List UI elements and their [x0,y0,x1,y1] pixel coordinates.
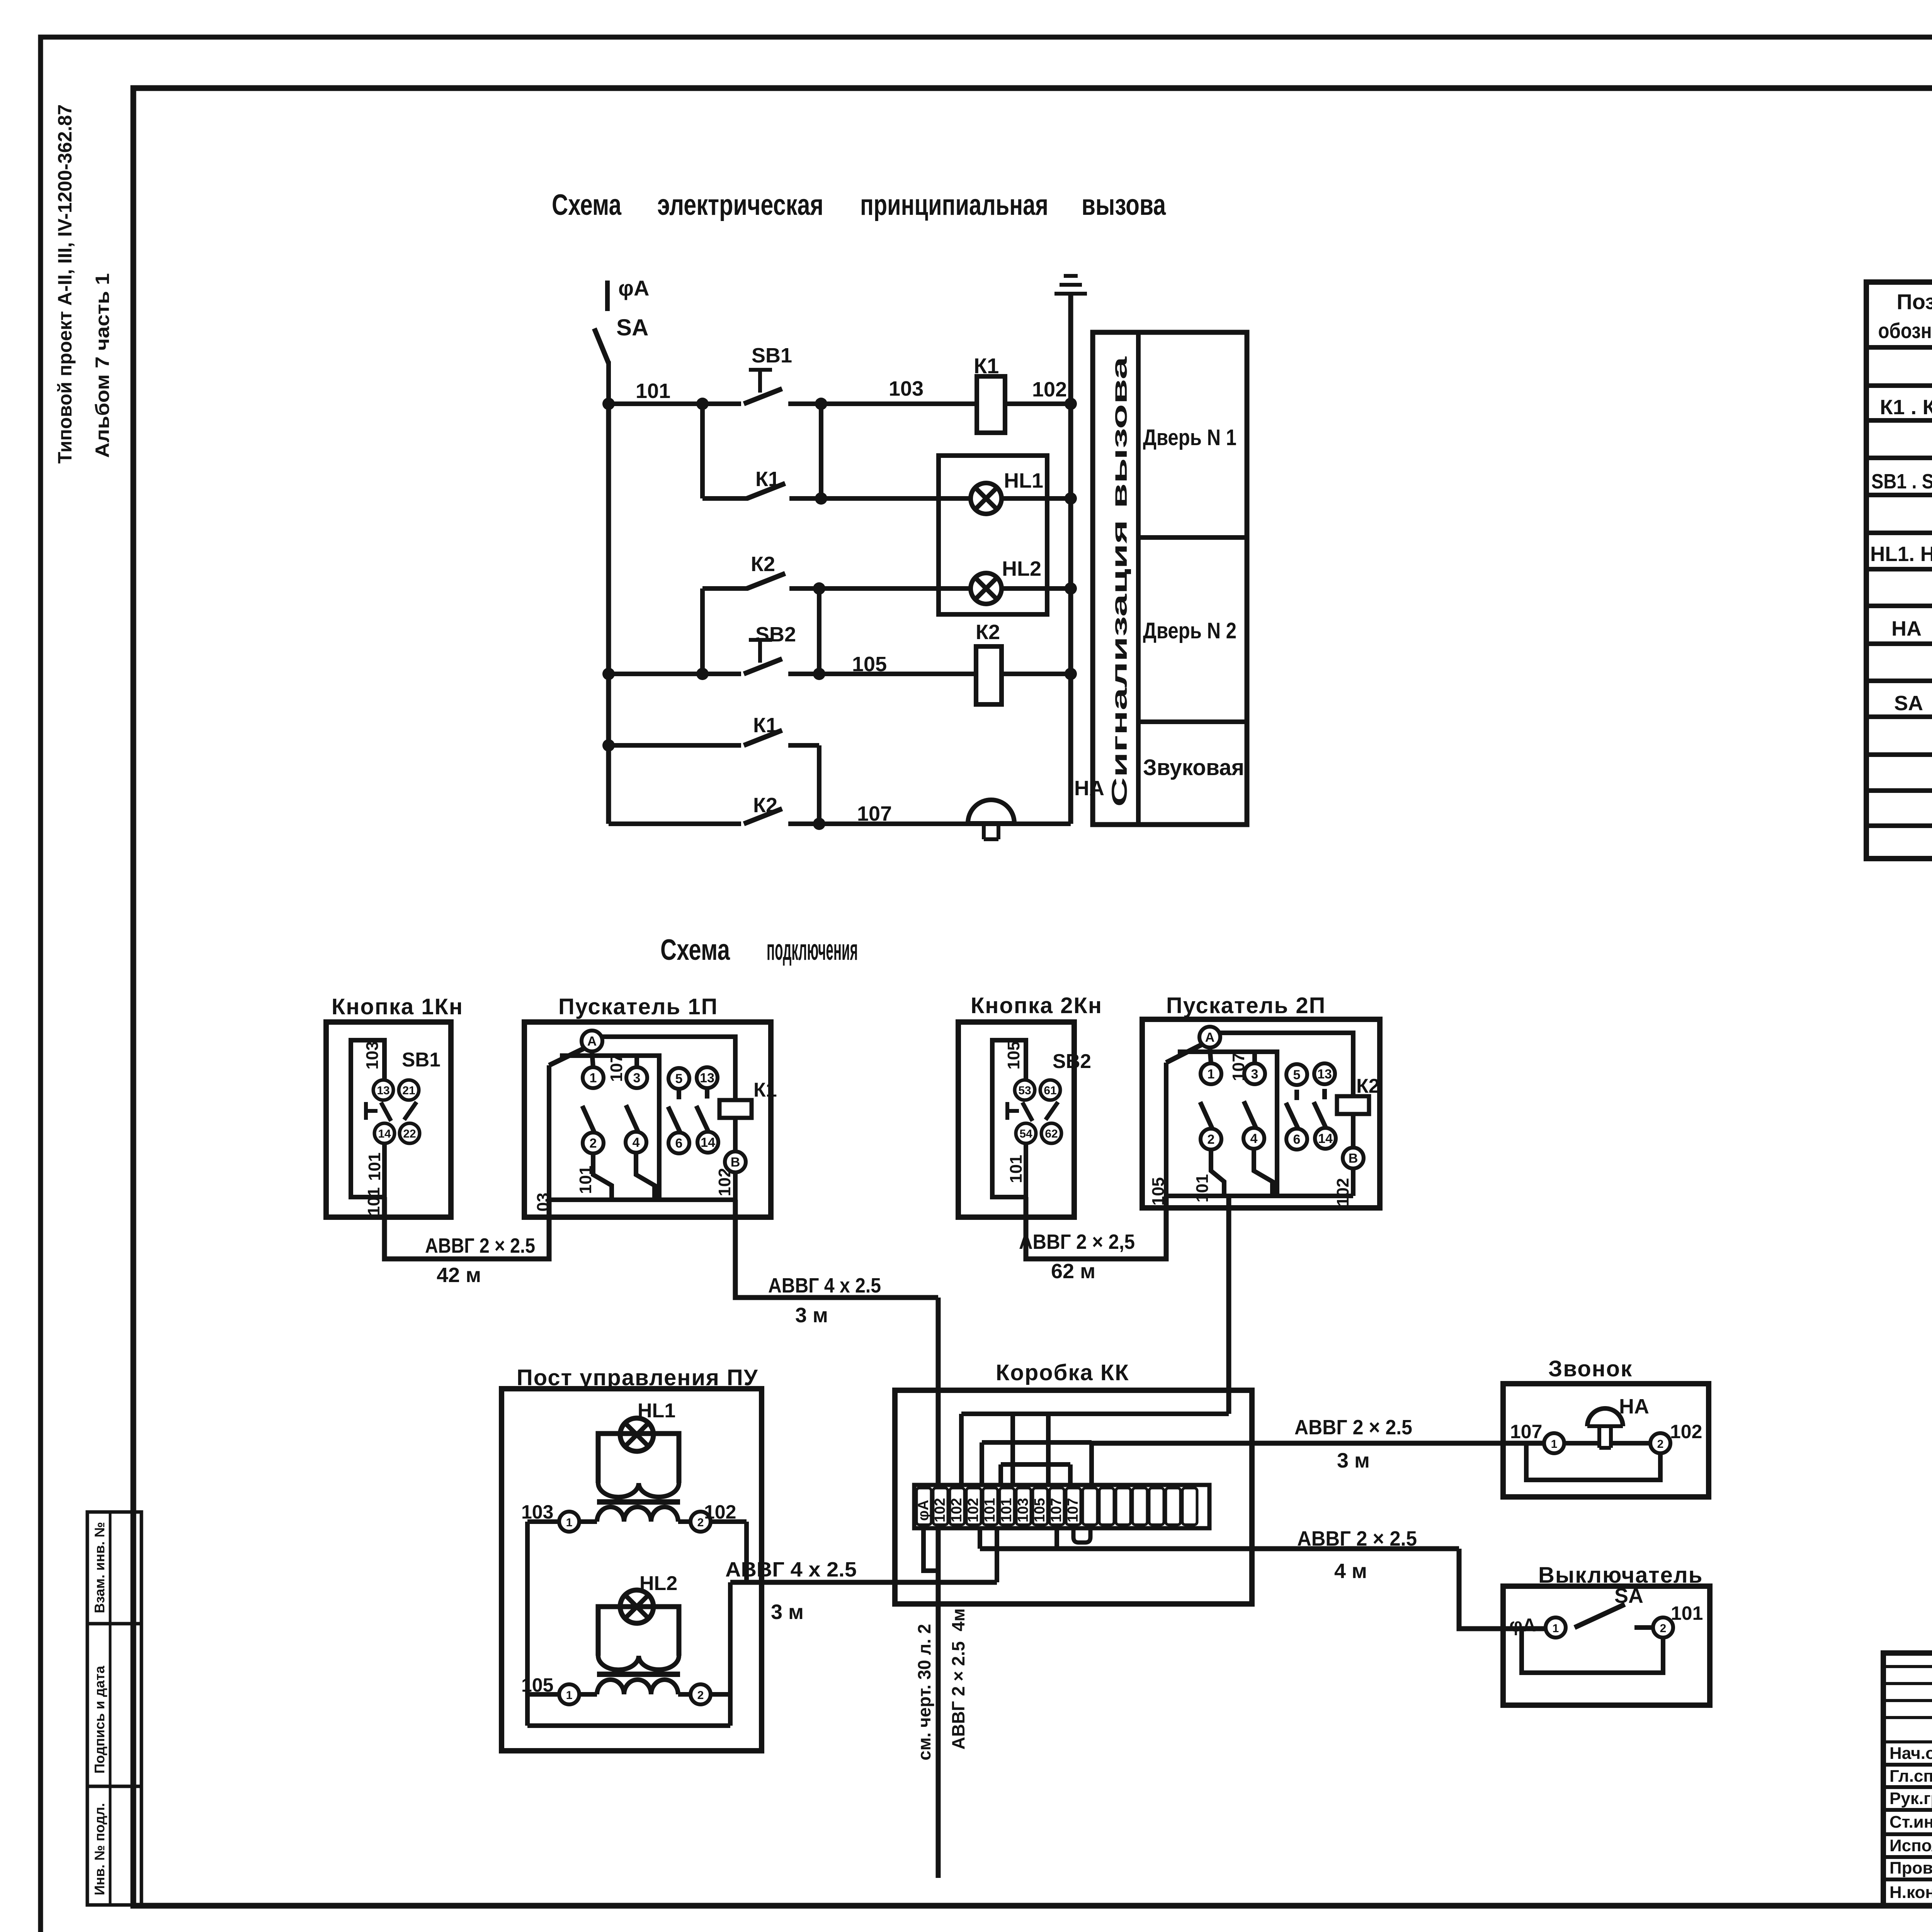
svg-text:103: 103 [1015,1498,1031,1522]
svg-text:105: 105 [1004,1041,1023,1070]
svg-text:2: 2 [1660,1622,1667,1635]
svg-text:101: 101 [364,1187,383,1216]
svg-text:НL2: НL2 [639,1572,677,1595]
svg-text:6: 6 [675,1136,683,1151]
svg-text:НL1. НL2: НL1. НL2 [1870,543,1932,566]
svg-text:1: 1 [566,1516,573,1529]
svg-text:101: 101 [576,1166,595,1194]
svg-text:Рук.гр: Рук.гр [1889,1789,1932,1808]
svg-text:φА: φА [618,276,650,300]
svg-text:2: 2 [697,1689,704,1702]
svg-text:Подпись и дата: Подпись и дата [92,1665,107,1774]
svg-text:2: 2 [590,1136,597,1151]
svg-text:Схема: Схема [552,189,622,221]
svg-text:обознач.: обознач. [1878,318,1932,343]
svg-text:101: 101 [982,1498,998,1522]
svg-text:Кнопка 2Кн: Кнопка 2Кн [971,993,1102,1018]
svg-text:НА: НА [1074,777,1104,800]
svg-text:Пост управления ПУ: Пост управления ПУ [517,1365,759,1390]
svg-text:К1: К1 [755,468,780,491]
svg-text:101: 101 [998,1498,1015,1522]
svg-text:105: 105 [852,653,887,676]
svg-text:54: 54 [1019,1128,1032,1140]
svg-text:К1: К1 [753,714,777,737]
svg-text:Инв. № подл.: Инв. № подл. [92,1803,107,1895]
svg-text:101: 101 [1671,1602,1703,1624]
svg-text:3 м: 3 м [1337,1449,1370,1472]
svg-text:HL2: HL2 [1002,557,1041,580]
svg-text:Альбом 7 часть 1: Альбом 7 часть 1 [92,273,113,458]
svg-text:14: 14 [378,1128,391,1140]
svg-text:АВВГ 2 × 2,5: АВВГ 2 × 2,5 [1019,1230,1135,1253]
svg-text:Нач.отд.: Нач.отд. [1889,1744,1932,1763]
svg-text:102: 102 [965,1498,981,1522]
svg-text:102: 102 [704,1501,736,1523]
svg-text:НА: НА [1891,617,1922,640]
svg-text:φА: φА [1509,1615,1536,1636]
svg-text:13: 13 [377,1084,389,1097]
svg-text:62: 62 [1045,1128,1058,1140]
svg-text:Пускатель 1П: Пускатель 1П [558,994,718,1019]
svg-text:SA: SA [1614,1584,1643,1607]
svg-text:107: 107 [607,1054,626,1082]
svg-text:SB2: SB2 [1053,1050,1091,1073]
svg-text:3 м: 3 м [795,1304,828,1327]
svg-text:3: 3 [633,1071,641,1085]
svg-text:102: 102 [1032,378,1067,401]
svg-text:1: 1 [1207,1067,1215,1082]
svg-text:Схема: Схема [660,934,730,966]
svg-text:101: 101 [365,1153,384,1181]
svg-text:К2: К2 [753,794,777,817]
svg-text:2: 2 [697,1516,704,1529]
svg-text:5: 5 [675,1071,683,1086]
svg-text:4 м: 4 м [1334,1560,1367,1583]
svg-text:К1: К1 [974,354,999,378]
svg-text:107: 107 [1229,1053,1248,1081]
svg-text:62 м: 62 м [1051,1260,1095,1283]
svg-text:Поз.: Поз. [1896,289,1932,314]
svg-text:см. черт. 30 л. 2: см. черт. 30 л. 2 [914,1624,934,1760]
svg-text:Н.контр.: Н.контр. [1889,1883,1932,1902]
svg-text:Типовой проект А-II, III, IV-1: Типовой проект А-II, III, IV-1200-362.87 [54,104,76,464]
svg-text:SB1: SB1 [752,344,792,367]
svg-text:АВВГ 2 × 2.5: АВВГ 2 × 2.5 [425,1234,535,1257]
svg-text:22: 22 [403,1128,416,1140]
svg-text:105: 105 [1149,1177,1168,1206]
svg-text:42 м: 42 м [437,1264,481,1287]
svg-text:φА: φА [915,1500,932,1521]
svg-text:105: 105 [521,1674,553,1696]
svg-text:Дверь N 1: Дверь N 1 [1143,425,1236,450]
svg-text:Звуковая: Звуковая [1143,755,1244,780]
svg-text:6: 6 [1293,1132,1301,1147]
svg-text:Провер.: Провер. [1889,1859,1932,1878]
svg-text:А: А [587,1034,597,1049]
svg-text:1: 1 [566,1689,573,1702]
svg-text:подключения: подключения [767,934,858,966]
svg-text:21: 21 [402,1084,415,1097]
svg-text:1: 1 [1553,1622,1559,1635]
svg-text:К2: К2 [976,621,1000,644]
svg-text:1: 1 [590,1071,597,1085]
svg-text:101: 101 [1193,1174,1212,1202]
svg-text:2: 2 [1207,1132,1215,1147]
svg-text:61: 61 [1044,1084,1056,1097]
svg-text:К2: К2 [1356,1075,1380,1097]
svg-text:А: А [1205,1030,1215,1045]
svg-text:HL1: HL1 [1004,469,1043,492]
svg-text:1: 1 [1551,1438,1558,1451]
svg-text:АВВГ 2 × 2.5: АВВГ 2 × 2.5 [948,1641,968,1750]
svg-text:SA: SA [616,315,648,340]
svg-text:К1: К1 [753,1079,777,1101]
svg-text:SB1: SB1 [402,1049,440,1071]
svg-text:5: 5 [1293,1068,1301,1082]
svg-text:Коробка КК: Коробка КК [996,1360,1129,1385]
svg-text:2: 2 [1657,1438,1664,1451]
svg-text:4м: 4м [948,1608,968,1631]
svg-text:Звонок: Звонок [1548,1356,1633,1381]
svg-text:107: 107 [1048,1498,1065,1522]
svg-text:4: 4 [1250,1131,1258,1146]
svg-text:103: 103 [521,1501,553,1523]
svg-text:Гл.спец.: Гл.спец. [1889,1767,1932,1786]
svg-text:электрическая: электрическая [657,189,823,221]
svg-text:103: 103 [889,377,923,400]
svg-text:SB2: SB2 [755,623,796,646]
svg-text:102: 102 [932,1498,948,1522]
svg-text:НА: НА [1619,1395,1649,1418]
svg-text:Исполн.: Исполн. [1889,1836,1932,1855]
svg-text:В: В [1349,1151,1358,1166]
svg-text:вызова: вызова [1082,189,1166,221]
svg-text:НL1: НL1 [638,1400,675,1422]
svg-text:102: 102 [949,1498,965,1522]
svg-text:К1 . К2: К1 . К2 [1880,396,1932,419]
svg-text:В: В [731,1155,740,1170]
svg-text:107: 107 [857,802,892,825]
svg-text:АВВГ 2 × 2.5: АВВГ 2 × 2.5 [1297,1527,1417,1550]
svg-text:Ст.инж.: Ст.инж. [1889,1813,1932,1832]
svg-text:Пускатель 2П: Пускатель 2П [1166,993,1326,1018]
svg-text:103: 103 [363,1041,382,1070]
svg-text:107: 107 [1065,1498,1081,1522]
svg-text:53: 53 [1018,1084,1031,1097]
svg-text:13: 13 [1317,1067,1332,1082]
svg-text:АВВГ 2 × 2.5: АВВГ 2 × 2.5 [1294,1416,1412,1439]
svg-text:13: 13 [700,1071,714,1085]
svg-text:101: 101 [1007,1155,1026,1183]
svg-text:102: 102 [715,1168,734,1196]
svg-text:АВВГ 4 х 2.5: АВВГ 4 х 2.5 [768,1274,881,1297]
svg-text:АВВГ 4 х 2.5: АВВГ 4 х 2.5 [725,1558,857,1581]
svg-text:Сигнализация вызова: Сигнализация вызова [1107,356,1131,807]
svg-text:105: 105 [1032,1498,1048,1522]
svg-text:Взам. инв. №: Взам. инв. № [92,1522,107,1613]
svg-text:103: 103 [534,1193,553,1221]
svg-text:SA: SA [1894,692,1923,715]
svg-text:3: 3 [1251,1067,1259,1082]
svg-text:3 м: 3 м [771,1600,804,1624]
svg-text:принципиальная: принципиальная [860,189,1048,221]
svg-text:Кнопка 1Кн: Кнопка 1Кн [332,994,463,1019]
svg-text:102: 102 [1333,1178,1352,1206]
svg-text:14: 14 [701,1135,715,1150]
svg-text:101: 101 [636,379,670,403]
svg-text:Дверь N 2: Дверь N 2 [1143,618,1236,643]
svg-text:107: 107 [1510,1421,1542,1442]
svg-text:4: 4 [633,1135,640,1150]
svg-text:SB1 . SB2: SB1 . SB2 [1871,470,1932,493]
svg-text:102: 102 [1670,1421,1702,1442]
svg-text:К2: К2 [751,553,775,576]
svg-text:14: 14 [1318,1131,1333,1146]
